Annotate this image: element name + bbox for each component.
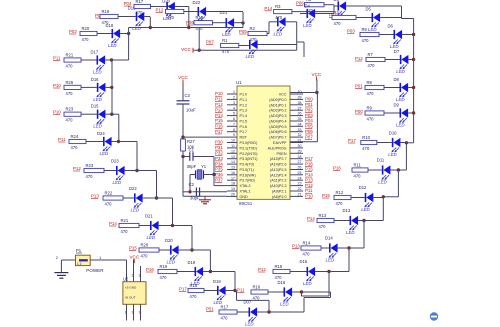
svg-text:P05: P05 — [305, 124, 313, 129]
wire — [140, 266, 142, 282]
wire XTAL2 — [214, 185, 227, 187]
resistor R24 — [69, 134, 86, 150]
svg-text:P12: P12 — [73, 166, 81, 171]
svg-text:P12: P12 — [355, 56, 363, 61]
svg-text:8: 8 — [233, 128, 235, 132]
resistor R20 — [139, 242, 159, 258]
LED D13 — [343, 208, 359, 235]
LED D23 — [111, 159, 125, 186]
wire RST — [183, 136, 227, 138]
svg-text:D8: D8 — [394, 77, 400, 82]
wire — [226, 290, 235, 292]
net label P14 — [305, 172, 313, 177]
resistor R23 — [84, 163, 104, 179]
wire — [139, 225, 150, 227]
wire — [334, 5, 338, 7]
net label P30 — [215, 140, 223, 145]
net label P17 — [179, 287, 187, 292]
wire — [189, 175, 191, 192]
LED D8 — [394, 77, 409, 102]
junction — [405, 141, 408, 144]
LED D16 — [278, 280, 293, 307]
wire — [133, 304, 135, 320]
wire — [144, 16, 150, 18]
wire — [338, 247, 349, 249]
wire — [377, 142, 392, 144]
power VCC chip — [312, 72, 322, 81]
svg-text:P07: P07 — [305, 134, 313, 139]
svg-text:RST: RST — [240, 136, 248, 140]
pin 40 VCC — [279, 90, 303, 96]
svg-text:30pF: 30pF — [187, 164, 197, 169]
LED D21 — [145, 214, 159, 241]
resistor R22 — [103, 190, 123, 206]
svg-text:(AD3)P0.3: (AD3)P0.3 — [269, 114, 286, 118]
net label P51 — [206, 307, 214, 312]
wire — [408, 59, 413, 61]
LED D22 — [193, 0, 207, 26]
svg-text:P12: P12 — [305, 183, 313, 188]
svg-text:P1.1: P1.1 — [240, 98, 248, 102]
svg-text:470: 470 — [141, 253, 149, 258]
wire — [237, 311, 249, 313]
svg-text:D15: D15 — [300, 259, 308, 264]
pin 38 (AD1)P0.1 — [269, 101, 303, 107]
wire — [184, 11, 198, 13]
wire — [384, 87, 400, 89]
junction — [209, 270, 212, 273]
resistor R7 — [366, 52, 385, 68]
wire — [90, 259, 126, 261]
net label P06 — [186, 20, 194, 25]
svg-text:LED: LED — [132, 26, 141, 31]
wire rail — [397, 170, 399, 197]
wire — [400, 142, 406, 144]
svg-text:P01: P01 — [355, 84, 363, 89]
resistor R23 — [64, 107, 81, 123]
LED D16 — [91, 77, 106, 102]
wire — [126, 260, 128, 282]
svg-text:VCC: VCC — [129, 255, 139, 260]
svg-text:PSEN: PSEN — [276, 152, 286, 156]
wire — [213, 157, 215, 186]
net label P03 — [95, 13, 103, 18]
junction — [397, 168, 400, 171]
svg-text:22: 22 — [298, 187, 302, 191]
wire — [315, 13, 334, 15]
svg-text:(AD4)P0.4: (AD4)P0.4 — [269, 120, 286, 124]
svg-text:LED: LED — [246, 54, 255, 59]
net label P35 — [215, 167, 223, 172]
net label P15 — [305, 167, 313, 172]
wire rail — [363, 221, 365, 249]
svg-text:P13: P13 — [215, 107, 223, 112]
svg-text:R9: R9 — [367, 105, 373, 110]
svg-text:VCC: VCC — [181, 47, 191, 52]
svg-text:P14: P14 — [215, 113, 223, 118]
svg-text:15: 15 — [231, 166, 235, 170]
svg-text:P14: P14 — [264, 6, 272, 11]
svg-text:P30: P30 — [215, 140, 223, 145]
wire — [303, 298, 305, 313]
net label P14 — [109, 221, 117, 226]
wire — [286, 21, 297, 23]
svg-text:P15: P15 — [322, 193, 330, 198]
resistor R12 — [334, 190, 351, 206]
svg-text:P14: P14 — [305, 172, 313, 177]
net label P12 — [258, 267, 266, 272]
wire — [143, 197, 157, 199]
pin 14 P3.4(T0) — [227, 160, 254, 166]
wire — [182, 151, 184, 196]
resistor R6 — [360, 27, 379, 43]
wire EA tie — [316, 93, 318, 142]
wire — [236, 291, 238, 301]
junction — [412, 33, 415, 36]
svg-text:D3: D3 — [334, 0, 340, 2]
svg-text:P37: P37 — [215, 177, 223, 182]
pin 11 P3.1(TXD) — [227, 144, 257, 150]
ground power — [54, 273, 68, 279]
svg-text:P10: P10 — [53, 110, 61, 115]
pin 37 (AD2)P0.2 — [269, 106, 303, 112]
net label P14 — [264, 6, 272, 11]
capacitor C1 30pF — [187, 147, 197, 169]
svg-text:P11: P11 — [53, 56, 61, 61]
junction — [412, 58, 415, 61]
wire — [237, 299, 270, 301]
LED D9 — [394, 103, 409, 128]
pin 9 RST — [227, 133, 248, 139]
net label P02 — [305, 107, 313, 112]
svg-text:LED: LED — [93, 124, 102, 129]
svg-text:R19: R19 — [102, 9, 110, 14]
svg-text:LED: LED — [93, 97, 102, 102]
wire — [120, 33, 129, 35]
wire — [112, 141, 119, 143]
power VCC — [181, 47, 193, 53]
LED D19 — [188, 260, 204, 286]
LED D20 — [162, 0, 175, 21]
junction — [117, 140, 120, 143]
svg-text:P15: P15 — [129, 246, 137, 251]
pin 31 EA/VPP — [273, 139, 303, 145]
wire — [268, 291, 284, 293]
wire rail — [136, 142, 138, 171]
wire — [297, 41, 304, 43]
wire — [183, 156, 190, 158]
net label P07 — [206, 40, 214, 45]
resistor R18 — [166, 4, 184, 20]
wire — [300, 13, 307, 15]
resistor R2 — [248, 26, 267, 42]
net label P00 — [305, 97, 313, 102]
wire — [112, 113, 119, 115]
crystal Y1 — [196, 164, 207, 179]
svg-text:P1.7: P1.7 — [240, 130, 248, 134]
LED D6 — [388, 24, 403, 50]
pin 2 P1.1 — [227, 96, 247, 102]
wire — [123, 197, 134, 199]
svg-text:P34: P34 — [215, 161, 223, 166]
svg-text:R8: R8 — [367, 80, 373, 85]
svg-text:470: 470 — [336, 201, 344, 206]
svg-text:IN OUT: IN OUT — [125, 296, 136, 300]
svg-text:33: 33 — [298, 128, 302, 132]
svg-text:P1.5: P1.5 — [240, 120, 248, 124]
svg-text:(AD1)P0.1: (AD1)P0.1 — [269, 103, 286, 107]
LED D15 — [300, 259, 316, 286]
svg-text:R3: R3 — [275, 4, 281, 9]
wire — [179, 249, 192, 251]
svg-text:P02: P02 — [305, 107, 313, 112]
svg-text:P11: P11 — [237, 288, 245, 293]
pin 4 P1.3 — [227, 106, 247, 112]
wire — [383, 196, 398, 198]
svg-text:P17: P17 — [348, 138, 356, 143]
svg-text:P12: P12 — [258, 267, 266, 272]
svg-text:LED: LED — [303, 23, 312, 28]
svg-text:R22: R22 — [105, 190, 113, 195]
wire — [118, 16, 136, 18]
net label P33 — [215, 156, 223, 161]
svg-text:470: 470 — [136, 10, 144, 15]
pin 16 P3.6(WR) — [227, 171, 256, 177]
resistor R1 — [221, 38, 239, 54]
svg-text:R24: R24 — [71, 134, 79, 139]
svg-text:+5 GND: +5 GND — [125, 286, 137, 290]
wire — [296, 22, 298, 50]
net label P10 — [305, 194, 313, 199]
svg-text:P06: P06 — [296, 1, 304, 6]
capacitor C3 10uF — [177, 93, 196, 113]
wire — [182, 104, 184, 139]
svg-text:P14: P14 — [307, 216, 315, 221]
pin 15 P3.5(T1) — [227, 166, 254, 172]
resistor R19 — [100, 9, 118, 25]
wire XTAL1 — [193, 191, 228, 193]
wire — [235, 290, 237, 292]
svg-text:35: 35 — [298, 117, 302, 121]
pin 28 (A15)P2.7 — [270, 155, 303, 161]
resistor R27 10K — [181, 139, 196, 151]
resistor R3 — [274, 4, 292, 20]
svg-text:20: 20 — [231, 193, 235, 197]
net label P11 — [305, 188, 313, 193]
svg-text:(AD6)P0.6: (AD6)P0.6 — [269, 130, 286, 134]
svg-text:R23: R23 — [86, 163, 94, 168]
wire — [402, 18, 414, 20]
svg-text:(AD2)P0.2: (AD2)P0.2 — [269, 109, 286, 113]
wire — [268, 300, 270, 312]
net label P06 — [305, 129, 313, 134]
svg-text:36: 36 — [298, 112, 302, 116]
pin 8 P1.7 — [227, 128, 247, 134]
pin 19 XTAL1 — [227, 187, 251, 193]
svg-text:470: 470 — [334, 21, 342, 26]
svg-text:89C51: 89C51 — [239, 201, 253, 206]
svg-text:5: 5 — [233, 112, 235, 116]
wire — [126, 304, 128, 320]
net label P36 — [215, 172, 223, 177]
pin 34 (AD5)P0.5 — [269, 122, 303, 128]
svg-text:LED: LED — [396, 123, 405, 128]
svg-text:LED: LED — [326, 258, 335, 263]
svg-text:38: 38 — [298, 101, 302, 105]
junction — [149, 26, 152, 29]
svg-text:P13: P13 — [91, 194, 99, 199]
svg-text:(AD5)P0.5: (AD5)P0.5 — [269, 125, 286, 129]
minus button icon — [430, 312, 438, 320]
wire — [203, 271, 210, 273]
LED D14 — [325, 236, 338, 263]
svg-text:3: 3 — [139, 274, 141, 278]
svg-text:D12: D12 — [359, 185, 367, 190]
pin 32 (AD7)P0.7 — [269, 133, 303, 139]
wire — [157, 197, 173, 199]
resistor R21 — [119, 218, 139, 234]
wire — [267, 33, 269, 35]
wire — [334, 220, 350, 222]
svg-text:(A10)P2.2: (A10)P2.2 — [270, 184, 287, 188]
svg-text:470: 470 — [71, 145, 79, 150]
pin 35 (AD4)P0.4 — [269, 117, 303, 124]
svg-text:470: 470 — [222, 49, 230, 54]
svg-text:25: 25 — [298, 171, 302, 175]
net label P12 — [73, 166, 81, 171]
resistor R17 — [134, 0, 151, 15]
net label P13 — [91, 194, 99, 199]
net label P02 — [69, 29, 77, 34]
svg-text:D21: D21 — [220, 10, 228, 15]
pin 17 P3.7(RD) — [227, 176, 255, 182]
svg-text:R7: R7 — [368, 52, 374, 57]
svg-text:R1: R1 — [222, 38, 228, 43]
svg-text:LED: LED — [113, 180, 122, 185]
svg-text:GND: GND — [240, 195, 249, 199]
svg-text:32: 32 — [298, 133, 302, 137]
wire — [401, 6, 403, 19]
svg-text:VCC: VCC — [279, 93, 287, 97]
net label P16 — [146, 267, 154, 272]
svg-text:R18: R18 — [190, 283, 198, 288]
svg-text:U2: U2 — [123, 276, 129, 281]
wire — [257, 311, 269, 313]
wire — [316, 80, 318, 93]
net label P15 — [129, 246, 137, 251]
svg-text:30: 30 — [298, 144, 302, 148]
pin 18 XTAL2 — [227, 182, 251, 188]
svg-text:D17: D17 — [91, 50, 99, 55]
wire — [385, 59, 400, 61]
pin 30 ALE/PROG — [268, 144, 303, 150]
svg-text:R4: R4 — [334, 10, 340, 15]
LED D12 — [359, 185, 374, 212]
wire — [61, 259, 75, 261]
wire — [408, 112, 414, 114]
net label P15 — [215, 118, 223, 123]
wire — [175, 6, 189, 8]
wire — [105, 59, 129, 61]
junction — [171, 224, 174, 227]
LED D18 — [106, 23, 121, 48]
svg-text:D23: D23 — [111, 159, 119, 164]
resistor R20 — [80, 26, 97, 42]
pin 26 (A13)P2.5 — [270, 166, 303, 172]
wire — [190, 174, 196, 176]
svg-text:R6: R6 — [362, 27, 368, 32]
pin 6 P1.5 — [227, 117, 247, 124]
wire — [303, 42, 305, 57]
svg-text:P11: P11 — [215, 97, 223, 102]
svg-text:LED: LED — [388, 152, 397, 157]
svg-text:26: 26 — [298, 166, 302, 170]
svg-text:(A9)P2.1: (A9)P2.1 — [272, 190, 287, 194]
wire — [118, 114, 120, 141]
LED D07 — [244, 300, 258, 327]
net label P13 — [305, 177, 313, 182]
net label P07 — [305, 134, 313, 139]
resistor R26 — [64, 80, 81, 96]
wire — [97, 33, 112, 35]
net label P37 — [215, 177, 223, 182]
svg-text:D16: D16 — [278, 280, 286, 285]
wire — [302, 291, 331, 293]
pin 24 (A11)P2.3 — [270, 176, 303, 182]
net label P12 — [305, 183, 313, 188]
wire — [406, 142, 413, 144]
svg-text:P04: P04 — [305, 118, 313, 123]
svg-text:LED: LED — [274, 31, 283, 36]
wire — [292, 11, 334, 13]
pin 36 (AD3)P0.3 — [269, 112, 303, 118]
pin 27 (A14)P2.6 — [270, 160, 303, 166]
svg-text:R18: R18 — [167, 4, 175, 9]
wire — [290, 271, 307, 273]
svg-text:P00: P00 — [305, 97, 313, 102]
junction — [110, 113, 113, 116]
svg-text:P15: P15 — [215, 118, 223, 123]
capacitor C2 30pF — [189, 182, 200, 200]
net label P00 — [355, 109, 363, 114]
svg-text:470: 470 — [319, 224, 327, 229]
svg-text:LED: LED — [108, 43, 117, 48]
svg-text:LED: LED — [93, 70, 102, 75]
wire rail — [209, 250, 211, 272]
pin 39 (AD0)P0.0 — [269, 96, 303, 102]
svg-text:(A14)P2.6: (A14)P2.6 — [270, 163, 287, 167]
LED D17 — [91, 50, 106, 75]
svg-text:10uF: 10uF — [186, 108, 196, 113]
svg-text:(A8)P2.0: (A8)P2.0 — [272, 195, 287, 199]
wire — [234, 22, 243, 24]
junction — [127, 32, 130, 35]
svg-text:Y1: Y1 — [201, 164, 207, 169]
svg-text:R15: R15 — [275, 264, 283, 269]
junction — [300, 290, 303, 293]
svg-text:R20: R20 — [141, 242, 149, 247]
net label P11 — [215, 97, 223, 102]
svg-text:P3.3(INT1): P3.3(INT1) — [240, 157, 258, 161]
svg-text:470: 470 — [105, 201, 113, 206]
svg-text:P3.0(RXD): P3.0(RXD) — [240, 141, 258, 145]
svg-text:LED: LED — [361, 207, 370, 212]
net label P16 — [333, 166, 341, 171]
svg-text:R16: R16 — [196, 15, 204, 20]
svg-text:3: 3 — [139, 311, 141, 315]
svg-text:P3.6(WR): P3.6(WR) — [240, 173, 256, 177]
svg-text:C3: C3 — [185, 93, 191, 98]
